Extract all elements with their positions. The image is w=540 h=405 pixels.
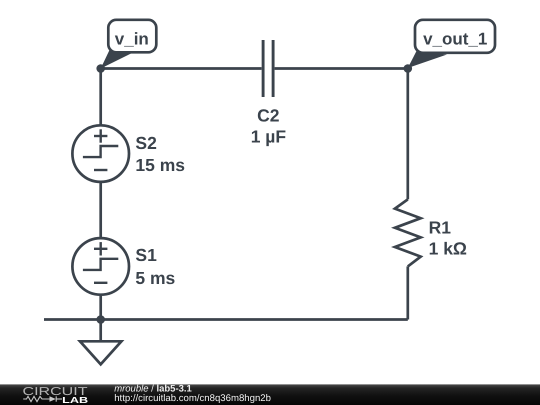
wire bottom ground rail — [44, 318, 408, 321]
svg-text:http://circuitlab.com/cn8q36m8: http://circuitlab.com/cn8q36m8hgn2b — [114, 393, 271, 404]
node dot ground junction — [96, 315, 105, 324]
wire right branch lower (R1 bottom to ground rail) — [406, 266, 409, 319]
svg-text:v_out_1: v_out_1 — [423, 30, 487, 49]
node dot v_out_1 — [404, 64, 413, 73]
CircuitLab logo resistor-diode glyph — [23, 396, 62, 401]
wire top-right horizontal (C2 right plate to v_out_1 node) — [275, 67, 408, 70]
svg-text:1 kΩ: 1 kΩ — [429, 239, 467, 259]
capacitor C2 — [251, 40, 287, 146]
node flag v_out_1 — [408, 20, 495, 68]
ground — [80, 320, 121, 365]
svg-text:5 ms: 5 ms — [135, 268, 175, 288]
svg-text:S1: S1 — [135, 245, 157, 265]
svg-text:v_in: v_in — [115, 29, 149, 48]
wire right branch upper (v_out_1 node to R1 top) — [406, 69, 409, 200]
voltage source S2 — [72, 125, 185, 182]
svg-text:R1: R1 — [429, 217, 452, 237]
resistor R1 — [395, 199, 467, 266]
wire left branch between S2 and S1 — [99, 181, 102, 239]
svg-text:15 ms: 15 ms — [135, 155, 185, 175]
footer bar — [0, 384, 540, 405]
svg-text:LAB: LAB — [62, 395, 88, 405]
svg-text:S2: S2 — [135, 133, 157, 153]
wire left branch upper (v_in node to S2 top) — [99, 69, 102, 127]
wire top-left horizontal (v_in node to C2 left plate) — [101, 67, 262, 70]
svg-text:1 µF: 1 µF — [251, 126, 287, 146]
svg-text:C2: C2 — [257, 105, 280, 125]
node dot v_in — [96, 64, 105, 73]
wire left branch lower (S1 bottom to ground rail) — [99, 294, 102, 320]
voltage source S1 — [72, 238, 175, 295]
node flag v_in — [101, 20, 157, 69]
